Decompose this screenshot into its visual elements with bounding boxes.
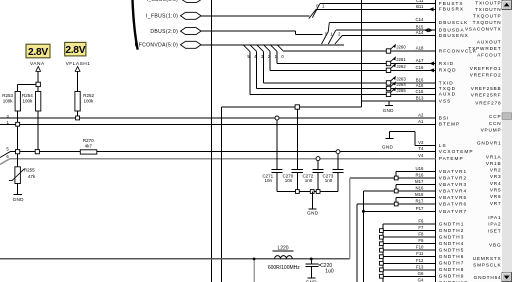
svg-text:VR1B: VR1B bbox=[486, 161, 502, 166]
svg-text:VR3: VR3 bbox=[490, 174, 502, 179]
svg-text:VREFRFO2: VREFRFO2 bbox=[470, 72, 502, 77]
svg-text:C11: C11 bbox=[416, 0, 424, 3]
svg-text:A14: A14 bbox=[416, 30, 424, 35]
svg-text:VCXOTEMP: VCXOTEMP bbox=[439, 149, 474, 154]
wire : VBATVR3 pin wire and drop bbox=[396, 185, 436, 192]
svg-text:GNDTH2: GNDTH2 bbox=[439, 228, 465, 233]
svg-text:U16: U16 bbox=[416, 166, 424, 171]
svg-text:4k7: 4k7 bbox=[85, 144, 93, 149]
svg-text:VBATVR7: VBATVR7 bbox=[439, 209, 467, 214]
svg-text:IPA2: IPA2 bbox=[488, 222, 501, 227]
node DBUS(2:0) : bus port bbox=[150, 28, 201, 35]
svg-text:A18: A18 bbox=[416, 46, 424, 51]
capacitor C270 10n bbox=[283, 105, 303, 192]
node : IC right inner signal-name column bbox=[465, 0, 502, 280]
svg-text:VR6: VR6 bbox=[490, 194, 502, 199]
node VFLASH1 : label and arrow bbox=[66, 61, 91, 91]
capacitor C271 10n bbox=[262, 116, 282, 192]
svg-text:VBATVR3: VBATVR3 bbox=[439, 182, 467, 187]
node : RXID direction arrow bbox=[430, 61, 435, 65]
svg-text:VREF278: VREF278 bbox=[475, 101, 501, 106]
svg-text:B15: B15 bbox=[416, 25, 424, 30]
svg-text:VANA: VANA bbox=[30, 61, 45, 67]
node : VBATVR6 junction square bbox=[394, 202, 398, 206]
wire : net 1 (BTEMP) full-width bbox=[0, 120, 436, 125]
power flag 2.8V VFLASH1 bbox=[65, 42, 86, 56]
svg-text:T4: T4 bbox=[418, 146, 424, 151]
wire : DBUSDA bit line bbox=[336, 29, 436, 31]
svg-text:TXQOUTN: TXQOUTN bbox=[473, 20, 502, 25]
svg-text:B11: B11 bbox=[416, 4, 424, 9]
svg-text:VBATVR4: VBATVR4 bbox=[439, 188, 467, 193]
svg-text:10n: 10n bbox=[285, 178, 293, 183]
svg-text:I_CBUS(3:0): I_CBUS(3:0) bbox=[147, 0, 179, 3]
test pad J265 bbox=[386, 87, 406, 96]
svg-text:A17: A17 bbox=[416, 58, 424, 63]
wire : VBATVR4 pin wire turning down at x=363.4 bbox=[363, 191, 435, 282]
svg-text:GND: GND bbox=[382, 145, 394, 150]
svg-text:UEMRSTX: UEMRSTX bbox=[473, 256, 502, 261]
svg-text:F10: F10 bbox=[416, 245, 424, 250]
svg-text:G4: G4 bbox=[418, 278, 424, 282]
svg-text:F12: F12 bbox=[416, 258, 424, 263]
svg-text:J262: J262 bbox=[396, 64, 406, 69]
svg-text:DBUSDA: DBUSDA bbox=[439, 28, 465, 33]
wire : net 5 (VCXOTEMP) with entry stub bbox=[0, 147, 436, 158]
svg-text:VBG: VBG bbox=[489, 243, 501, 248]
svg-text:TXID: TXID bbox=[439, 80, 454, 85]
svg-text:RFCONVDA(5:0): RFCONVDA(5:0) bbox=[135, 43, 179, 49]
node : junction dot at C220 tap bbox=[310, 258, 313, 261]
svg-text:DBUSENX: DBUSENX bbox=[439, 33, 469, 38]
wire : VSS pin stub bbox=[361, 101, 435, 106]
svg-text:47k: 47k bbox=[28, 174, 36, 179]
svg-text:AUXOUT: AUXOUT bbox=[477, 39, 502, 44]
ground : capacitor rail GND bbox=[307, 192, 319, 216]
svg-text:J263: J263 bbox=[396, 77, 406, 82]
resistor R270 4k7 bbox=[80, 138, 97, 154]
svg-text:600R/100MHz: 600R/100MHz bbox=[268, 265, 300, 271]
capacitor C220 1u0 bbox=[306, 259, 334, 278]
wire : VBATVR6 pin wire turning down at x=356.9 bbox=[357, 204, 436, 282]
svg-text:G6: G6 bbox=[418, 271, 424, 276]
svg-text:R16: R16 bbox=[416, 173, 424, 178]
wire : grey vertical riser x=349.9 to VBATVR2 bbox=[349, 178, 351, 259]
svg-text:J260: J260 bbox=[396, 45, 406, 50]
wire : DBUSENX bit line bbox=[342, 35, 435, 37]
wire : LS pin to GND bbox=[390, 132, 436, 146]
svg-text:DBUS(2:0): DBUS(2:0) bbox=[150, 29, 178, 35]
svg-text:FBUSTX: FBUSTX bbox=[439, 1, 464, 6]
svg-text:VR5: VR5 bbox=[490, 188, 502, 193]
svg-text:C14: C14 bbox=[416, 17, 424, 22]
svg-text:IPA1: IPA1 bbox=[488, 215, 501, 220]
svg-text:1n0: 1n0 bbox=[325, 178, 333, 183]
node RFCONVDA(5:0) : bus port bbox=[135, 41, 201, 48]
node : GNDTH junction squares bbox=[380, 229, 384, 278]
svg-text:R255: R255 bbox=[24, 167, 35, 172]
node : large connector bubble arc (top left) bbox=[132, 0, 137, 50]
svg-text:TXQD: TXQD bbox=[439, 86, 456, 91]
wire : VANA node to R253/R254 tops bbox=[18, 84, 39, 91]
svg-text:R254: R254 bbox=[22, 93, 33, 98]
svg-text:VSS: VSS bbox=[439, 98, 452, 103]
resistor R255 47k (thermistor) bbox=[9, 154, 36, 194]
svg-text:VFLASH1: VFLASH1 bbox=[66, 61, 91, 67]
wire : GNDTH2-9 pin wires bbox=[381, 231, 435, 277]
node : FBUSRX direction arrow bbox=[429, 7, 434, 11]
ground : R255 GND bbox=[13, 194, 25, 202]
svg-text:VREF25BB: VREF25BB bbox=[471, 86, 502, 91]
svg-text:VBATVR2: VBATVR2 bbox=[439, 175, 467, 180]
resistor R252 100k bbox=[75, 92, 95, 116]
svg-text:BSI: BSI bbox=[439, 115, 450, 120]
node : IC pin numbers column bbox=[415, 0, 424, 282]
svg-text:F11: F11 bbox=[416, 251, 424, 256]
test pad J264 bbox=[386, 81, 406, 90]
svg-text:GNDTH3: GNDTH3 bbox=[439, 235, 465, 240]
node : VANA junction square bbox=[36, 82, 40, 86]
svg-text:VSACONVTX: VSACONVTX bbox=[465, 26, 502, 31]
svg-text:J264: J264 bbox=[396, 82, 406, 87]
svg-text:M17: M17 bbox=[415, 179, 424, 184]
resistor R254 100k bbox=[22, 92, 41, 150]
svg-text:TXIOUTP: TXIOUTP bbox=[475, 0, 501, 5]
svg-text:TXPWRDET: TXPWRDET bbox=[468, 46, 501, 51]
power flag 2.8V VANA bbox=[26, 44, 50, 58]
wire : VBATVR7 pin wire bbox=[363, 210, 435, 212]
svg-text:VR2: VR2 bbox=[490, 168, 502, 173]
node : IC pin function names (left column inside chip) bbox=[439, 1, 477, 282]
svg-text:F7: F7 bbox=[418, 225, 424, 230]
wire : VBAT bottom rail (grey) bbox=[0, 258, 350, 260]
svg-text:R252: R252 bbox=[83, 93, 94, 98]
svg-text:5: 5 bbox=[6, 147, 9, 152]
svg-text:AUXD: AUXD bbox=[439, 92, 456, 97]
svg-text:GNDVR1: GNDVR1 bbox=[477, 141, 502, 146]
svg-text:1: 1 bbox=[322, 4, 325, 9]
wire : RFCONVDA bit L-runs to pins bbox=[250, 51, 436, 94]
resistor R253 100k bbox=[2, 92, 20, 123]
svg-text:TXIOUTN: TXIOUTN bbox=[475, 7, 502, 12]
svg-text:A16: A16 bbox=[416, 83, 424, 88]
wire : DBUSCLK bit line bbox=[329, 21, 435, 23]
svg-text:GNDTH4: GNDTH4 bbox=[439, 241, 465, 246]
node VANA : label and arrow bbox=[30, 61, 45, 82]
svg-text:GND: GND bbox=[383, 108, 395, 113]
wire : net 6 (PATEMP) highlighted grey bbox=[0, 154, 436, 164]
svg-text:GNDTH6: GNDTH6 bbox=[439, 254, 465, 259]
svg-text:SMPSCLK: SMPSCLK bbox=[473, 262, 501, 267]
svg-text:F9: F9 bbox=[418, 238, 424, 243]
svg-text:J261: J261 bbox=[396, 57, 406, 62]
svg-text:VBATVR6: VBATVR6 bbox=[439, 201, 467, 206]
node I_FBUS(1:0) : bus port bbox=[146, 12, 201, 19]
svg-text:C16: C16 bbox=[416, 65, 424, 70]
svg-text:2: 2 bbox=[338, 31, 341, 36]
svg-text:V2: V2 bbox=[418, 140, 424, 145]
svg-text:N16: N16 bbox=[416, 186, 424, 191]
svg-text:CCP: CCP bbox=[489, 114, 501, 119]
svg-text:F8: F8 bbox=[418, 232, 424, 237]
svg-text:GNDTH64: GNDTH64 bbox=[474, 275, 502, 280]
node : rail junction squares bbox=[296, 190, 321, 194]
scrollbar up button bbox=[502, 1, 512, 10]
svg-text:10n: 10n bbox=[265, 178, 273, 183]
svg-text:2.8V: 2.8V bbox=[65, 45, 85, 56]
svg-text:V4: V4 bbox=[418, 153, 424, 158]
wire : RFCONVDA bus line bbox=[201, 44, 344, 46]
svg-text:VR7: VR7 bbox=[490, 201, 502, 206]
wire : I_FBUS bit ripper diagonals and digits bbox=[309, 4, 325, 19]
wire : VBATVR5 pin wire and drop bbox=[396, 198, 436, 205]
svg-text:2.8V: 2.8V bbox=[28, 47, 48, 58]
inductor L220 600R/100MHz bbox=[268, 246, 300, 271]
wire : DBUS bus line with step-down bbox=[201, 31, 323, 34]
svg-text:0: 0 bbox=[281, 54, 284, 59]
node : R253 junction square on net 1 bbox=[16, 122, 20, 126]
svg-text:1u0: 1u0 bbox=[325, 268, 334, 274]
wire : link net1 square down to net5 square bbox=[17, 126, 19, 149]
node : RXQD direction arrow bbox=[430, 68, 435, 72]
svg-text:P17: P17 bbox=[416, 206, 424, 211]
wire : capacitor bottom rail bbox=[277, 191, 338, 193]
svg-text:ISET: ISET bbox=[488, 229, 502, 234]
svg-text:TXQOUTP: TXQOUTP bbox=[473, 13, 502, 18]
svg-text:VREFRFO1: VREFRFO1 bbox=[470, 66, 502, 71]
svg-text:A2: A2 bbox=[418, 113, 424, 118]
svg-text:GNDTH8: GNDTH8 bbox=[439, 267, 465, 272]
scrollbar thumb bbox=[502, 113, 512, 120]
test pad J262 bbox=[386, 63, 406, 72]
node : junction dot left of L220 bbox=[253, 258, 256, 261]
capacitor C272 1n0 bbox=[303, 157, 324, 192]
wire : FBUSRX bit line bbox=[316, 8, 436, 10]
wire : FBUSTX bit line bbox=[320, 3, 436, 5]
node : VBATVR7 junction dot bbox=[362, 210, 365, 213]
svg-text:GNDTH5: GNDTH5 bbox=[439, 248, 465, 253]
ground : VSS GND bbox=[383, 106, 395, 114]
op-amp U1 : large IC interior fill bbox=[436, 0, 512, 282]
node : R254 junction square on net 5 bbox=[35, 150, 39, 154]
svg-text:C15: C15 bbox=[416, 89, 424, 94]
svg-text:VREF25RF: VREF25RF bbox=[471, 92, 502, 97]
test pad J261 bbox=[386, 56, 406, 65]
wire : I_FBUS bus line bbox=[201, 15, 310, 17]
svg-text:VPUMP: VPUMP bbox=[481, 127, 502, 132]
node : cut-off bus port at top edge bbox=[147, 0, 201, 3]
wire : net 0 (BSI) full-width bbox=[0, 113, 436, 118]
ground : C220 GND bbox=[306, 278, 318, 282]
svg-text:RXID: RXID bbox=[439, 61, 454, 66]
svg-text:AFCOUT: AFCOUT bbox=[477, 52, 501, 57]
svg-text:R270: R270 bbox=[83, 138, 94, 143]
svg-text:GNDTH7: GNDTH7 bbox=[439, 261, 465, 266]
svg-text:1n0: 1n0 bbox=[305, 178, 313, 183]
svg-text:GNDTH9: GNDTH9 bbox=[439, 274, 465, 279]
wire : VBATVR2 pin wire to grey drop bbox=[350, 177, 436, 179]
svg-text:F6: F6 bbox=[418, 219, 424, 224]
svg-text:A1: A1 bbox=[418, 119, 424, 124]
svg-text:VR1A: VR1A bbox=[486, 155, 502, 160]
svg-text:GND: GND bbox=[307, 211, 319, 216]
svg-text:R253: R253 bbox=[2, 93, 13, 98]
svg-text:F13: F13 bbox=[416, 264, 424, 269]
svg-text:R17: R17 bbox=[416, 199, 424, 204]
test pad J260 bbox=[386, 44, 406, 53]
wire : VBATVR1 pin wire and drop bbox=[396, 172, 436, 179]
node : VBATVR4 junction square bbox=[394, 189, 398, 193]
capacitor C273 1n0 bbox=[323, 150, 344, 192]
svg-text:DBUSCLK: DBUSCLK bbox=[439, 20, 469, 25]
svg-text:FBUSRX: FBUSRX bbox=[439, 7, 464, 12]
svg-text:VBATVR1: VBATVR1 bbox=[439, 169, 467, 174]
svg-text:100k: 100k bbox=[3, 98, 14, 103]
svg-text:100k: 100k bbox=[23, 98, 34, 103]
svg-text:I_FBUS(1:0): I_FBUS(1:0) bbox=[146, 14, 178, 20]
svg-text:PATEMP: PATEMP bbox=[439, 156, 464, 161]
wire : DBUS bit ripper diagonals and digits bbox=[322, 22, 343, 44]
node : DBUSDA bidirectional arrows bbox=[424, 28, 433, 32]
svg-text:J265: J265 bbox=[396, 88, 406, 93]
svg-text:B16: B16 bbox=[416, 77, 424, 82]
svg-text:100k: 100k bbox=[84, 98, 95, 103]
node : R252 junction square on net 0 bbox=[76, 116, 80, 120]
svg-text:LS: LS bbox=[439, 143, 447, 148]
node : VBATVR2 junction square bbox=[394, 176, 398, 180]
node : R255 junction square on net 5 bbox=[16, 150, 20, 154]
wire : vertical net x=221.6 with top corner bbox=[222, 0, 362, 282]
test pad J263 bbox=[386, 76, 406, 85]
wire : grey branch drop at x=254.1 bbox=[253, 259, 255, 282]
scrollbar track bbox=[502, 0, 512, 282]
scrollbar down button bbox=[502, 273, 512, 282]
svg-text:M18: M18 bbox=[415, 192, 424, 197]
wire : IC left boundary edge bbox=[435, 0, 437, 282]
wire : GNDTH1 pin wire turning down bbox=[383, 224, 436, 282]
svg-text:GNDTH1: GNDTH1 bbox=[439, 222, 465, 227]
svg-text:CCN: CCN bbox=[489, 121, 502, 126]
svg-text:VBATVR5: VBATVR5 bbox=[439, 195, 467, 200]
wire : RFCONVDA bit ripper diagonals and digits bbox=[243, 45, 285, 59]
svg-text:GND: GND bbox=[13, 197, 25, 202]
wire : long vertical net at x=211.5 bbox=[211, 0, 213, 282]
svg-text:VR4: VR4 bbox=[490, 181, 502, 186]
svg-text:B13: B13 bbox=[416, 95, 424, 100]
svg-text:BTEMP: BTEMP bbox=[439, 122, 460, 127]
ground : LS GND bbox=[382, 139, 394, 150]
svg-text:RXQD: RXQD bbox=[439, 68, 457, 73]
